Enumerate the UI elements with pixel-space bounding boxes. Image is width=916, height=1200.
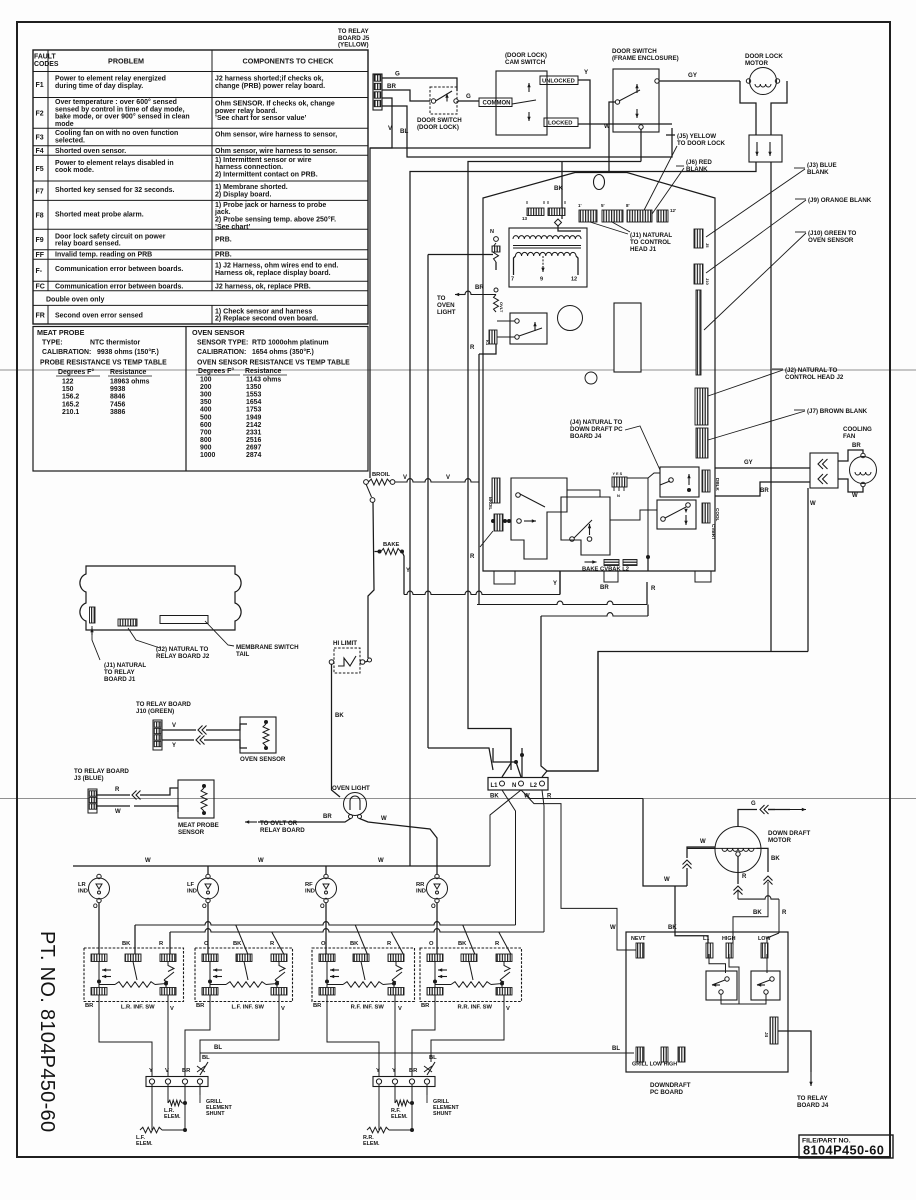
infinite switch R.R. INF. SW	[420, 948, 522, 1002]
svg-text:F5: F5	[36, 166, 44, 173]
svg-text:RTD 1000ohm platinum: RTD 1000ohm platinum	[252, 340, 329, 347]
svg-text:BR: BR	[600, 585, 609, 591]
svg-text:W: W	[852, 493, 858, 499]
svg-text:Shorted key sensed for 32 seco: Shorted key sensed for 32 seconds.	[55, 187, 174, 194]
leader J10 to connector	[704, 233, 806, 330]
svg-text:W: W	[610, 925, 616, 931]
wire R from L2 down	[542, 790, 544, 932]
downdraft pc board outline	[626, 932, 788, 1072]
wire W down right of center	[643, 799, 687, 887]
board hole lower circle	[585, 372, 597, 384]
svg-text:(J7) BROWN BLANK: (J7) BROWN BLANK	[807, 408, 868, 415]
svg-text:IND: IND	[416, 888, 426, 894]
svg-text:800: 800	[200, 437, 212, 444]
wire W chevron riser to motor	[686, 868, 688, 886]
svg-text:BOARD J4: BOARD J4	[570, 433, 602, 440]
svg-text:BK: BK	[490, 794, 499, 800]
svg-text:O: O	[204, 941, 209, 947]
svg-text:1143 ohms: 1143 ohms	[246, 377, 281, 384]
svg-text:600: 600	[200, 422, 212, 429]
svg-text:R: R	[742, 874, 747, 880]
svg-text:NEVT: NEVT	[631, 936, 646, 942]
svg-text:RR: RR	[416, 882, 425, 888]
infinite switch L.R. INF. SW	[84, 948, 184, 1002]
svg-text:210.1: 210.1	[62, 409, 79, 416]
svg-text:NTC thermistor: NTC thermistor	[90, 340, 140, 347]
svg-text:Resistance: Resistance	[110, 369, 147, 376]
svg-text:Door lock safety circuit on po: Door lock safety circuit on power	[55, 233, 166, 240]
svg-text:CALIBRATION:: CALIBRATION:	[197, 349, 246, 356]
svg-text:F7: F7	[36, 188, 44, 195]
wires into terminal from above	[502, 729, 511, 778]
svg-text:BROIL: BROIL	[372, 472, 390, 478]
svg-text:BL: BL	[612, 1046, 620, 1052]
tap R to box 4	[499, 932, 511, 954]
svg-text:(DOOR LOCK): (DOOR LOCK)	[417, 124, 459, 131]
wire W from motor left	[687, 847, 715, 849]
svg-text:TYPE:: TYPE:	[42, 340, 63, 347]
svg-text:BK: BK	[458, 941, 467, 947]
svg-text:(YELLOW): (YELLOW)	[338, 42, 369, 49]
svg-text:TO RELAY: TO RELAY	[797, 1095, 828, 1102]
svg-text:7456: 7456	[110, 401, 125, 408]
svg-text:Resistance: Resistance	[245, 368, 282, 375]
svg-text:BAKE: BAKE	[383, 542, 400, 548]
svg-text:(J1) NATURAL: (J1) NATURAL	[104, 662, 146, 669]
leader from J6 label	[652, 168, 684, 214]
svg-text:FC: FC	[36, 284, 45, 291]
L.F. INF. SW terminal L1	[236, 954, 252, 962]
membrane switch tail	[160, 616, 208, 624]
svg-text:Invalid temp. reading on PRB: Invalid temp. reading on PRB	[55, 252, 152, 259]
svg-text:Y: Y	[172, 743, 176, 749]
wires from RR switch	[412, 995, 435, 1076]
svg-text:BR: BR	[182, 1068, 191, 1074]
broil element switch contact	[366, 484, 372, 497]
svg-text:O: O	[320, 904, 325, 910]
grill element shunt wire	[199, 1084, 201, 1095]
wire G door switch to common	[458, 100, 479, 102]
svg-text:(J5) YELLOW: (J5) YELLOW	[677, 133, 716, 140]
svg-text:BR: BR	[852, 443, 861, 449]
svg-text:(J10) GREEN TO: (J10) GREEN TO	[808, 230, 857, 237]
svg-text:J3 (BLUE): J3 (BLUE)	[74, 775, 104, 782]
svg-text:HEAD J1: HEAD J1	[630, 246, 657, 253]
L.R. INF. SW terminal L1	[125, 954, 141, 962]
wire R to meat probe	[97, 794, 130, 796]
R.F. INF. SW terminal L1	[353, 954, 369, 962]
wire W from cooling fan down	[807, 488, 809, 652]
R.F. INF. SW terminal L2	[388, 954, 404, 962]
wire BK from motor right	[757, 848, 769, 872]
svg-text:DOWNDRAFT: DOWNDRAFT	[650, 1082, 691, 1089]
R.F. INF. SW internals	[326, 962, 328, 971]
door lock actuator box with arrows	[749, 135, 782, 162]
svg-text:O: O	[321, 941, 326, 947]
transformer secondary winding	[516, 252, 576, 256]
svg-text:FAULT: FAULT	[34, 54, 56, 61]
svg-text:TAIL: TAIL	[236, 651, 250, 658]
svg-text:CODES: CODES	[34, 61, 59, 68]
svg-text:cook mode.: cook mode.	[55, 167, 94, 174]
wire W branch y803	[524, 793, 617, 947]
frame switch left terminal wire W	[609, 102, 616, 172]
wire bus at x410 from door lock actuator	[410, 162, 756, 866]
svg-text:Shorted oven sensor.: Shorted oven sensor.	[55, 148, 126, 155]
membrane connector J2 small	[118, 619, 137, 626]
broil relay contact box	[511, 478, 567, 559]
svg-text:BR: BR	[313, 1003, 322, 1009]
long connector strip right edge	[696, 290, 701, 375]
wire from J3 vertical down	[770, 651, 772, 653]
svg-text:400: 400	[200, 407, 212, 414]
svg-text:MEAT PROBE: MEAT PROBE	[178, 822, 219, 829]
svg-text:OVEN SENSOR: OVEN SENSOR	[192, 328, 246, 337]
unlocked terminal	[540, 76, 578, 85]
svg-text:OVEN: OVEN	[437, 302, 455, 309]
bake cvbak L2 label	[585, 561, 597, 563]
svg-text:1654: 1654	[246, 399, 261, 406]
svg-text:BR: BR	[760, 488, 769, 494]
leader from J5 label	[640, 146, 677, 218]
svg-text:1553: 1553	[246, 392, 261, 399]
oven sensor box	[240, 717, 276, 753]
svg-text:1350: 1350	[246, 384, 261, 391]
svg-text:BR: BR	[387, 83, 396, 90]
infinite switch R.F. INF. SW	[312, 948, 415, 1002]
wire from hi limit up to broil switch	[367, 640, 369, 658]
wire from J4 out to arrow	[778, 1031, 811, 1072]
svg-text:F1: F1	[36, 82, 44, 89]
svg-text:K3: K3	[485, 340, 490, 346]
downdraft relay 1	[706, 971, 737, 1000]
svg-text:R: R	[470, 345, 475, 351]
wire BK from hi limit down to oven light	[332, 665, 341, 798]
leader to K2 coil	[480, 531, 493, 547]
svg-text:BK: BK	[668, 925, 677, 931]
svg-text:SHUNT: SHUNT	[206, 1111, 225, 1117]
svg-text:TO RELAY: TO RELAY	[104, 669, 135, 676]
wire V to oven sensor	[162, 729, 196, 731]
svg-text:FF: FF	[36, 252, 45, 259]
wire W horizontal y798	[521, 790, 643, 799]
svg-text:1) Intermittent sensor or wire: 1) Intermittent sensor or wire	[215, 157, 312, 164]
svg-text:BL: BL	[429, 1055, 437, 1061]
downdraft relay 2	[751, 971, 780, 1000]
svg-text:2) Probe sensing temp. above 2: 2) Probe sensing temp. above 250°F.	[215, 216, 336, 224]
connector J3	[88, 789, 97, 813]
cooling fan motor	[850, 457, 877, 484]
L.R. INF. SW terminal H2	[160, 988, 176, 996]
membrane connector J1 small	[90, 607, 96, 623]
board mounting foot left	[494, 571, 515, 584]
indicator lamp LR IND	[89, 878, 110, 899]
svg-text:SENSOR TYPE:: SENSOR TYPE:	[197, 340, 248, 347]
svg-text:(J4) NATURAL TO: (J4) NATURAL TO	[570, 419, 622, 426]
svg-text:jack.: jack.	[214, 209, 231, 216]
wire BR board to cooling fan plug	[715, 482, 810, 496]
svg-text:1949: 1949	[246, 414, 261, 421]
svg-text:PT. NO. 8104P450-60: PT. NO. 8104P450-60	[36, 931, 58, 1132]
svg-text:during time of day display.: during time of day display.	[55, 83, 143, 90]
svg-text:GY: GY	[744, 460, 753, 466]
svg-text:W: W	[115, 809, 121, 815]
wire Y to oven sensor	[162, 739, 194, 741]
wire BL loop from J5	[382, 106, 672, 157]
svg-text:mode: mode	[55, 121, 74, 128]
svg-text:V: V	[281, 1006, 285, 1012]
L.R. INF. SW terminal H1	[91, 988, 107, 996]
svg-text:Communication error between bo: Communication error between boards.	[55, 266, 183, 273]
svg-text:Communication error between bo: Communication error between boards.	[55, 283, 183, 290]
svg-text:harness connection.: harness connection.	[215, 164, 283, 171]
svg-text:1753: 1753	[246, 407, 261, 414]
svg-text:J2 harness shorted;if checks o: J2 harness shorted;if checks ok,	[215, 76, 324, 83]
terminal HIGH bottom	[678, 1047, 685, 1062]
svg-text:GRILL LOW HIGH: GRILL LOW HIGH	[632, 1062, 677, 1068]
wires from LR switch to left element block	[99, 995, 152, 1076]
wire BR from J5 to door switch	[382, 90, 430, 101]
svg-text:3886: 3886	[110, 409, 125, 416]
wire Y from unlocked	[370, 80, 590, 148]
svg-text:COOL: COOL	[715, 508, 720, 521]
svg-text:V: V	[506, 1006, 510, 1012]
svg-text:Power to element relay energiz: Power to element relay energized	[55, 76, 166, 83]
cooling fan wires	[838, 450, 863, 461]
wires from RF switch to right element block	[327, 995, 379, 1076]
R.F. INF. SW terminal H1	[319, 988, 335, 996]
IC rectangle on board	[614, 303, 641, 372]
svg-text:power relay board.: power relay board.	[215, 108, 277, 115]
R.R. INF. SW terminal L2	[496, 954, 512, 962]
svg-text:W: W	[381, 816, 387, 822]
wire bus x428 from transformer area	[427, 255, 429, 749]
element resistor R.F. ELEM	[394, 1084, 396, 1100]
svg-text:CVBRT: CVBRT	[711, 524, 716, 540]
svg-text:7: 7	[511, 277, 514, 283]
svg-text:BR: BR	[85, 1003, 94, 1009]
wire GY board to cooling fan plug	[715, 467, 810, 469]
svg-text:FR: FR	[36, 312, 45, 319]
svg-text:CONTROL HEAD J2: CONTROL HEAD J2	[785, 374, 844, 381]
svg-text:W: W	[145, 858, 151, 864]
svg-text:2874: 2874	[246, 452, 261, 459]
R distribution bus	[170, 929, 544, 932]
wire Y from bake down	[402, 552, 404, 595]
wire bus x468 BK	[468, 162, 641, 771]
svg-text:Cooling fan on with no oven fu: Cooling fan on with no oven function	[55, 130, 178, 137]
wire R under board	[541, 613, 648, 616]
element terminal block	[373, 1077, 435, 1087]
svg-text:BL: BL	[214, 1045, 222, 1051]
svg-text:(J1) NATURAL: (J1) NATURAL	[630, 232, 672, 239]
relay bottoms join	[721, 995, 766, 1005]
svg-text:V: V	[165, 1068, 169, 1074]
svg-text:BL: BL	[400, 128, 408, 135]
lamp LF wires	[207, 866, 209, 875]
wire crossing X below terminal BK	[502, 790, 516, 925]
svg-text:200: 200	[200, 384, 212, 391]
connector J7 right edge	[696, 428, 708, 458]
leader J3 to connector	[706, 169, 805, 237]
svg-text:G: G	[466, 93, 471, 100]
svg-text:J5: J5	[705, 243, 710, 248]
indicator lamp RR IND	[427, 878, 448, 899]
svg-text:O: O	[202, 904, 207, 910]
svg-text:V: V	[398, 1006, 402, 1012]
svg-text:V: V	[403, 475, 407, 481]
connector J1-d	[657, 210, 668, 222]
wire BR under board	[477, 601, 647, 604]
leader J1 label	[590, 222, 628, 234]
svg-text:TO RELAY BOARD: TO RELAY BOARD	[136, 701, 191, 708]
svg-text:IND: IND	[187, 888, 197, 894]
BL bus wire	[200, 1052, 634, 1054]
bake relay contact box	[561, 497, 610, 555]
wire GY frame switch to door lock motor	[659, 80, 740, 82]
svg-text:sensed by control in time of d: sensed by control in time of day mode,	[55, 106, 185, 113]
svg-text:F-: F-	[36, 268, 43, 275]
svg-text:change (PRB) power relay board: change (PRB) power relay board.	[215, 83, 325, 90]
svg-text:R: R	[782, 910, 787, 916]
svg-text:GY: GY	[688, 72, 698, 79]
R.R. INF. SW terminal P	[427, 954, 443, 962]
svg-text:2142: 2142	[246, 422, 261, 429]
svg-text:350: 350	[200, 399, 212, 406]
svg-text:BR: BR	[421, 1003, 430, 1009]
L.F. INF. SW terminal H1	[202, 988, 218, 996]
svg-text:HIGH: HIGH	[722, 936, 736, 942]
svg-text:(DOOR LOCK): (DOOR LOCK)	[505, 52, 547, 59]
svg-text:OVEN SENSOR: OVEN SENSOR	[808, 237, 854, 244]
relay K3 contacts	[510, 313, 547, 344]
svg-text:F4: F4	[36, 148, 44, 155]
connector J5	[373, 74, 382, 110]
element terminal block	[146, 1077, 208, 1087]
svg-text:700: 700	[200, 429, 212, 436]
svg-text:COOLING: COOLING	[843, 426, 872, 433]
svg-text:165.2: 165.2	[62, 401, 79, 408]
Y wire horizontal to pcb	[404, 591, 560, 594]
svg-text:Harness ok, replace display bo: Harness ok, replace display board.	[215, 270, 331, 277]
element resistor L.F. ELEM	[151, 1084, 153, 1130]
svg-text:ELEM.: ELEM.	[391, 1114, 408, 1120]
svg-text:FAN: FAN	[843, 433, 856, 440]
svg-text:CAM SWITCH: CAM SWITCH	[505, 59, 546, 66]
svg-text:LOCKED: LOCKED	[548, 121, 572, 127]
L.F. INF. SW terminal H2	[271, 988, 287, 996]
L.R. INF. SW internals	[98, 962, 100, 971]
wires from LF switch	[185, 995, 210, 1076]
svg-text:R.F. INF. SW: R.F. INF. SW	[351, 1005, 385, 1011]
leader J4	[625, 426, 660, 470]
svg-text:Y: Y	[553, 581, 557, 587]
door switch frame enclosure	[613, 69, 659, 132]
svg-text:L2: L2	[530, 783, 538, 789]
svg-text:J10: J10	[705, 278, 710, 285]
membrane switch panel	[80, 566, 241, 630]
svg-text:ELEM.: ELEM.	[363, 1141, 380, 1147]
svg-text:V: V	[172, 723, 176, 729]
dblk coil connector	[702, 470, 710, 492]
lamp RF wires	[325, 866, 327, 875]
svg-text:2) Replace second oven board.: 2) Replace second oven board.	[215, 316, 318, 323]
wire Y left under board	[559, 571, 561, 595]
svg-text:Y: Y	[149, 1068, 153, 1074]
svg-text:OVLT: OVLT	[499, 302, 504, 313]
tap BK to box 3	[355, 925, 367, 954]
svg-text:Degrees F°: Degrees F°	[198, 367, 234, 375]
svg-text:(J6) RED: (J6) RED	[686, 159, 712, 166]
svg-text:W: W	[810, 501, 816, 507]
L.F. INF. SW internals	[209, 962, 211, 971]
svg-text:LIGHT: LIGHT	[437, 309, 456, 316]
svg-text:relay board sensed.: relay board sensed.	[55, 241, 121, 248]
svg-text:Ohm sensor, wire harness to se: Ohm sensor, wire harness to sensor.	[215, 148, 337, 155]
svg-text:O: O	[429, 941, 434, 947]
svg-text:LR: LR	[78, 882, 87, 888]
down draft motor	[715, 827, 761, 873]
tap R to box 3	[391, 932, 403, 954]
svg-text:8': 8'	[626, 203, 630, 208]
svg-text:RELAY BOARD: RELAY BOARD	[260, 827, 305, 834]
wire from door lock motor down to junction	[547, 652, 808, 772]
svg-text:G: G	[395, 71, 400, 78]
svg-text:RF: RF	[305, 882, 313, 888]
svg-text:BR: BR	[323, 814, 332, 820]
svg-text:UNLOCKED: UNLOCKED	[542, 79, 575, 85]
wire from locked	[578, 123, 672, 125]
svg-text:IND: IND	[305, 888, 315, 894]
svg-text:G: G	[751, 801, 756, 807]
svg-text:Y: Y	[392, 1068, 396, 1074]
svg-text:2697: 2697	[246, 444, 261, 451]
svg-text:bake mode, or over 900° sensed: bake mode, or over 900° sensed in clean	[55, 113, 190, 121]
svg-text:1654 ohms (350°F.): 1654 ohms (350°F.)	[252, 348, 314, 356]
connector J5 small right edge	[694, 229, 703, 248]
wire from dblk relay down to junction	[647, 478, 649, 557]
transformer T1 outline	[509, 228, 587, 287]
svg-text:8104P450-60: 8104P450-60	[803, 1143, 884, 1158]
svg-text:ELEM.: ELEM.	[164, 1114, 181, 1120]
svg-text:900: 900	[200, 444, 212, 451]
svg-text:BK: BK	[335, 713, 344, 719]
diamond junction	[555, 219, 562, 226]
fault code table	[33, 50, 368, 324]
svg-text:L.F. INF. SW: L.F. INF. SW	[231, 1005, 264, 1011]
svg-text:PRB.: PRB.	[215, 252, 232, 259]
locked terminal	[544, 118, 578, 127]
svg-text:Shorted meat probe alarm.: Shorted meat probe alarm.	[55, 211, 144, 218]
R.F. INF. SW terminal P	[319, 954, 335, 962]
terminal GRILL	[636, 1047, 644, 1062]
wire BR from oven light to arrow	[310, 819, 351, 823]
L.F. INF. SW terminal P	[202, 954, 218, 962]
svg-text:BL: BL	[202, 1055, 210, 1061]
svg-text:DOWN DRAFT PC: DOWN DRAFT PC	[570, 426, 623, 433]
oven light lamp	[344, 793, 367, 816]
svg-text:BK: BK	[233, 941, 242, 947]
wire G from J5 to door switch	[382, 78, 457, 91]
svg-text:LOW: LOW	[758, 936, 771, 942]
svg-text:(J2) NATURAL TO: (J2) NATURAL TO	[785, 367, 837, 374]
svg-text:IND: IND	[78, 888, 88, 894]
leader J7 label	[708, 411, 805, 440]
BK wire into transformer	[561, 162, 563, 220]
svg-text:BK: BK	[753, 910, 762, 916]
svg-text:9938: 9938	[110, 386, 125, 393]
K3 coil connector	[489, 330, 497, 344]
